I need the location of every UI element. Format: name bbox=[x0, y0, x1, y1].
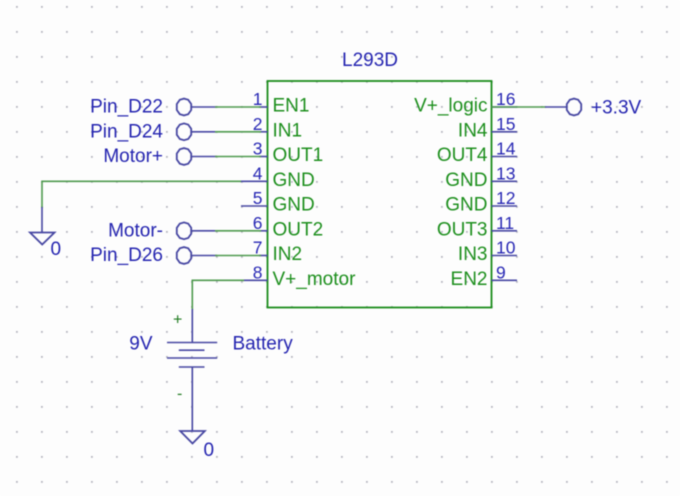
svg-text:5: 5 bbox=[253, 188, 263, 208]
terminal Motor+ lead bbox=[192, 156, 218, 158]
svg-text:IN1: IN1 bbox=[273, 120, 303, 141]
svg-text:IN2: IN2 bbox=[273, 244, 303, 265]
svg-text:+3.3V: +3.3V bbox=[591, 98, 642, 119]
battery BT1 bottom lead bbox=[191, 367, 193, 431]
pin 3 stub bbox=[259, 156, 268, 158]
svg-text:1: 1 bbox=[253, 89, 263, 109]
svg-text:3: 3 bbox=[253, 139, 263, 159]
svg-text:EN2: EN2 bbox=[451, 269, 488, 290]
svg-text:16: 16 bbox=[496, 89, 515, 109]
wire net Pin_D24 to pin 2 bbox=[215, 131, 261, 133]
ground symbol 0 (left) bbox=[30, 233, 55, 245]
svg-text:13: 13 bbox=[496, 163, 515, 183]
wire V+_motor net pin 8 horizontal bbox=[192, 279, 244, 281]
svg-text:9: 9 bbox=[496, 262, 506, 282]
pin 8 stub bbox=[243, 279, 268, 281]
wire net Pin_D22 to pin 1 bbox=[215, 106, 261, 108]
svg-text:OUT3: OUT3 bbox=[437, 219, 488, 240]
IC U1 L293D body bbox=[268, 81, 492, 308]
svg-text:0: 0 bbox=[51, 239, 62, 260]
terminal Motor+ octagon bbox=[177, 148, 191, 165]
svg-text:OUT4: OUT4 bbox=[437, 145, 488, 166]
battery BT1 top lead bbox=[191, 309, 193, 343]
wire net Motor- to pin 6 bbox=[215, 230, 261, 232]
terminal Pin_D22 lead bbox=[192, 106, 218, 108]
terminal +3.3V octagon bbox=[567, 99, 581, 116]
svg-text:11: 11 bbox=[496, 213, 514, 233]
svg-text:0: 0 bbox=[204, 440, 215, 461]
pin 1 stub bbox=[259, 106, 268, 108]
wire GND net pin 4 horizontal bbox=[42, 180, 241, 182]
svg-text:Motor+: Motor+ bbox=[103, 146, 163, 167]
pin 16 stub bbox=[492, 106, 518, 108]
terminal Pin_D26 octagon bbox=[177, 247, 191, 264]
svg-text:GND: GND bbox=[445, 170, 487, 191]
terminal Pin_D26 lead bbox=[192, 255, 218, 257]
svg-text:GND: GND bbox=[273, 170, 315, 191]
svg-text:IN3: IN3 bbox=[458, 244, 488, 265]
battery BT1 plate short lower bbox=[179, 366, 205, 368]
terminal Pin_D24 lead bbox=[192, 131, 218, 133]
svg-text:9V: 9V bbox=[129, 334, 153, 355]
svg-text:+: + bbox=[173, 312, 182, 329]
pin 13 stub bbox=[492, 180, 518, 182]
svg-text:OUT2: OUT2 bbox=[273, 219, 324, 240]
wire net Pin_D26 to pin 7 bbox=[215, 255, 261, 257]
pin 14 stub bbox=[492, 156, 518, 158]
svg-text:L293D: L293D bbox=[342, 50, 398, 71]
wire net Motor+ to pin 3 bbox=[215, 156, 261, 158]
svg-text:4: 4 bbox=[253, 163, 263, 183]
svg-text:10: 10 bbox=[496, 238, 516, 258]
battery BT1 plate long bottom bbox=[167, 357, 217, 359]
svg-text:Battery: Battery bbox=[233, 334, 294, 355]
svg-text:Pin_D22: Pin_D22 bbox=[90, 97, 163, 118]
battery BT1 plate long top bbox=[167, 342, 217, 344]
svg-text:OUT1: OUT1 bbox=[273, 145, 324, 166]
svg-text:Pin_D24: Pin_D24 bbox=[90, 121, 163, 142]
svg-text:12: 12 bbox=[496, 188, 515, 208]
pin 15 stub bbox=[492, 131, 518, 133]
pin 7 stub bbox=[259, 255, 268, 257]
pin 6 stub bbox=[259, 230, 268, 232]
pin 5 stub bbox=[241, 205, 268, 207]
pin 9 stub bbox=[492, 279, 518, 281]
wire GND net vertical drop bbox=[41, 181, 43, 209]
pin 12 stub bbox=[492, 205, 518, 207]
terminal Motor- lead bbox=[192, 230, 218, 232]
svg-text:GND: GND bbox=[445, 195, 487, 216]
ground lead (left ground) bbox=[41, 207, 43, 233]
svg-text:IN4: IN4 bbox=[458, 120, 488, 141]
svg-text:GND: GND bbox=[273, 195, 315, 216]
pin 4 stub bbox=[240, 180, 268, 182]
pin 2 stub bbox=[259, 131, 268, 133]
battery BT1 plate short upper bbox=[179, 349, 205, 351]
pin 10 stub bbox=[492, 255, 518, 257]
svg-text:6: 6 bbox=[253, 213, 263, 233]
svg-text:7: 7 bbox=[253, 238, 263, 258]
terminal Pin_D24 octagon bbox=[177, 123, 191, 140]
svg-text:14: 14 bbox=[496, 139, 516, 159]
wire V+_motor net vertical drop bbox=[191, 280, 193, 311]
svg-text:EN1: EN1 bbox=[273, 96, 310, 117]
terminal Motor- octagon bbox=[177, 222, 191, 239]
svg-text:Pin_D26: Pin_D26 bbox=[90, 245, 163, 266]
svg-text:2: 2 bbox=[253, 114, 263, 134]
terminal Pin_D22 octagon bbox=[177, 99, 191, 116]
svg-text:V+_logic: V+_logic bbox=[414, 96, 487, 117]
terminal +3.3V lead bbox=[545, 106, 567, 108]
wire +3.3V net from pin 16 bbox=[492, 106, 547, 108]
svg-text:Motor-: Motor- bbox=[108, 220, 163, 241]
ground symbol 0 (bottom) bbox=[180, 431, 205, 444]
svg-text:8: 8 bbox=[253, 262, 263, 282]
svg-text:15: 15 bbox=[496, 114, 515, 134]
svg-text:-: - bbox=[177, 386, 182, 403]
pin 11 stub bbox=[492, 230, 518, 232]
svg-text:V+_motor: V+_motor bbox=[273, 269, 357, 290]
